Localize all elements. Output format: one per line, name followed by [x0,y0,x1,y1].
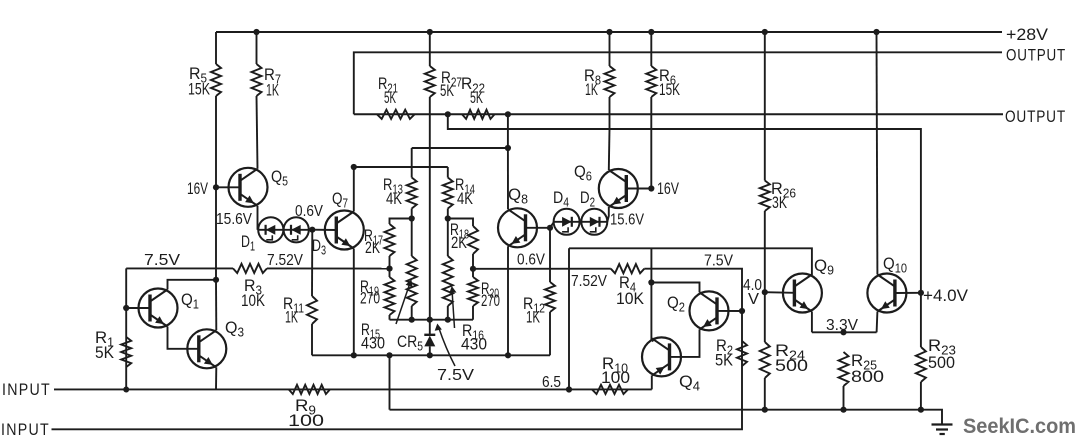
label R14 [455,175,475,208]
wire Q1 emitter to Q3 base [168,327,199,349]
svg-text:+4.0V: +4.0V [923,287,968,305]
svg-text:800: 800 [851,367,884,386]
svg-text:1K: 1K [526,308,540,327]
node 6.5 [566,386,572,392]
wire Q7 base [312,229,336,231]
wire row R13-top to R22-right column [412,114,511,151]
node Q1 base [123,305,129,311]
node Q8 base / D4 [547,225,553,231]
label R13 [383,175,403,208]
wire R26 to Q9 base [764,211,766,292]
svg-text:+28V: +28V [1006,26,1048,44]
resistor R11 [307,296,317,324]
label 15.6V right [610,212,645,229]
wire Q1 base [126,307,150,309]
wire R19 top [389,269,391,277]
label Q3 [225,318,244,340]
wire Q2 emitter to Q4 base [671,329,700,357]
transistor Q2 [690,291,729,330]
arrow to R16 [449,286,456,328]
label R10 [601,354,630,387]
svg-text:2K: 2K [365,238,380,257]
wire Q5 base from 16V node [216,186,240,188]
label INPUT upper [2,381,51,399]
wire R23 top [920,293,922,347]
wire Q4 collector column [651,248,653,341]
wire R16 top [447,219,449,257]
label 4.0 V [743,277,762,308]
wire R24 bottom [764,378,766,410]
wire R8 mid [609,97,611,129]
wire R13 bottom [411,209,413,219]
wire INPUT row [54,388,652,390]
label R8 [584,66,601,99]
wire R15 top [411,219,413,257]
node R1 top is Q1 base column [123,387,129,393]
svg-text:10K: 10K [616,289,645,308]
svg-text:1K: 1K [585,80,598,99]
wire 0.6V row [473,268,611,270]
wire R13 column top [411,148,413,178]
resistor R1 [121,337,131,367]
wire row to R14 top [351,164,448,170]
label R22 [461,74,485,107]
label 7.5V top-left [144,252,181,269]
wire 7.5V row [126,267,233,269]
wire Q2 collector jog [651,283,699,293]
wire R6 to 16V node [650,97,652,189]
node Q9 base [762,289,768,295]
wire R13bottom to R17 top [390,219,412,225]
diode D1 [258,217,283,242]
resistor R21 [377,110,415,119]
svg-text:100: 100 [601,368,630,387]
resistor R26 [760,181,770,212]
label 7.5V bottom [437,367,475,384]
label 15.6V left [216,211,253,228]
wire Q10 base [895,292,921,294]
diode D2 [581,209,607,235]
label D2 [580,188,595,210]
svg-text:16V: 16V [657,179,679,198]
wire R12 bottom [549,312,551,355]
wire R25 bottom [843,386,845,410]
wire row B [312,354,550,356]
arrow to R15 [396,280,413,325]
transistor Q3 [187,329,226,368]
resistor R4 [611,264,645,273]
wire R11 top [311,230,313,296]
label OUTPUT lower [1005,108,1066,126]
label R11 [283,294,304,327]
svg-text:500: 500 [775,356,808,375]
wire 3.3V row [812,331,877,333]
node 7.52V [386,266,392,272]
wire Q3 emitter [215,367,217,389]
transistor Q1 [139,289,178,328]
wire R4 to 7.5V corner [644,269,742,366]
label Q9 [814,256,834,278]
label +4.0V [923,287,968,305]
wire R15 bottom [411,306,413,320]
resistor R2 [737,341,747,366]
wire Q6 collector column [608,129,611,170]
label R26 [771,179,796,212]
wire Q4 emitter down [651,375,653,389]
resistor R25 [839,352,849,386]
svg-text:7.5V: 7.5V [704,253,734,270]
wire Q7 collector column [353,167,355,212]
wire bottom rail [390,410,943,424]
transistor Q8 [498,208,537,247]
wire Q8base to D4 [550,222,554,228]
svg-text:5K: 5K [470,88,483,107]
wire R19col down to bottom rail [389,355,391,409]
svg-text:7.52V: 7.52V [267,252,304,269]
wire Q10 emitter [876,312,879,333]
label R24 [775,341,808,375]
watermark SeekIC.com [963,415,1076,438]
node Q2 base [739,308,745,314]
label CR5 [397,332,423,354]
resistor R10 [592,385,628,394]
resistor R13 [407,178,417,209]
wire R20 bottom to row T [472,306,474,320]
node 16V right [648,185,654,191]
wire R3 to R17 junction [267,267,390,269]
node 16V [213,184,219,190]
wire R26 top [764,32,766,181]
label D3 [312,236,326,258]
transistor Q4 [642,337,681,376]
wire line A [569,248,812,275]
wire R20 top [472,269,474,277]
label 0.6V right [517,252,546,269]
wire 6.5 column [568,248,570,389]
svg-text:270: 270 [360,289,380,308]
label R23 [928,336,956,372]
svg-text:0.6V: 0.6V [517,252,546,269]
svg-text:3K: 3K [772,193,787,212]
resistor R12 [545,282,555,312]
svg-text:V: V [748,291,760,308]
label INPUT lower [1,421,50,439]
label 16V [187,179,208,198]
wire R5 column top [215,32,217,64]
resistor R23 [916,347,926,382]
label R7 [264,65,281,100]
wire OUTPUT rail upper [354,52,1002,114]
resistor R27 [425,66,435,97]
wire Q6 base [626,188,651,190]
node R13 bottom [409,215,415,221]
resistor R7 [252,64,262,96]
resistor R6 [646,66,656,97]
transistor Q6 [599,169,638,208]
wire Q1 base column [125,268,127,389]
diode D4 [554,209,580,235]
wire Q7 emitter column [353,249,355,356]
svg-text:INPUT: INPUT [2,381,51,399]
node Q1/Q3 collector tie [213,277,219,283]
label R15 [361,320,385,353]
svg-text:5K: 5K [440,81,454,100]
wire line B to Q10 base column [448,114,921,292]
label D1 [241,232,255,254]
label R18 [450,220,469,252]
svg-text:15K: 15K [188,80,210,99]
label R25 [851,351,884,386]
svg-text:270: 270 [481,291,500,310]
label R16 [461,321,487,354]
wire 16V node down through 7.5V row [215,187,217,279]
svg-text:7.5V: 7.5V [144,252,181,269]
resistor R19 [385,277,395,315]
wire Q3 collector [215,280,217,331]
wire Q9 base [765,291,795,294]
svg-text:5K: 5K [95,343,115,362]
label R4 [616,273,645,308]
svg-text:15.6V: 15.6V [216,211,253,228]
resistor R24 [760,342,770,378]
wire Q8 base [526,227,551,229]
label D4 [553,188,569,210]
wire D3 to Q7 base node [309,229,313,231]
label Q2 [667,293,685,315]
label R3 [241,276,266,310]
label Q5 [271,167,288,189]
resistor R22 [462,110,495,119]
wire R14bottom to R18 top [448,219,473,227]
label +28V [1006,26,1048,44]
zener CR5 [424,320,435,356]
wire Q9 emitter [811,312,813,333]
wire Q2 base [717,310,742,312]
label 7.52V left [267,252,304,269]
wire R12 top [549,228,551,282]
wire R5 to 16V node [215,96,217,187]
label Q6 [574,162,592,184]
label R1 [95,328,115,362]
wire Q8 collector column [507,148,509,209]
node Q2 collector tie [648,279,654,285]
svg-text:SeekIC.com: SeekIC.com [963,415,1076,438]
resistor R16 [443,256,453,306]
node R25 top [840,329,846,335]
wire R16 bottom [447,306,449,320]
wire R7 top [256,32,258,64]
svg-text:100: 100 [288,411,324,430]
wire R24 top [764,292,766,342]
label Q4 [679,372,700,394]
label R9 [288,396,324,430]
label OUTPUT upper [1006,47,1066,65]
arrow 7.5V to CR5 [435,324,455,367]
resistor R9 [289,385,330,394]
node bottom rail junctions [762,407,924,413]
svg-text:430: 430 [361,334,385,353]
label Q1 [181,290,199,312]
wire R27 column [429,32,431,66]
label R17 [364,226,383,257]
resistor R15 [407,256,417,306]
svg-text:10K: 10K [241,291,266,310]
label Q10 [883,254,907,276]
label 7.5V right [704,253,734,270]
wire Q5 emitter down [257,206,259,230]
svg-text:7.52V: 7.52V [571,273,608,290]
label R20 [481,279,500,310]
wire Q10 collector column [876,32,879,275]
wire Q1 collector jog [168,280,216,290]
svg-text:OUTPUT: OUTPUT [1005,108,1066,126]
node row B junctions [351,352,511,358]
label Q7 [332,189,348,211]
resistor R5 [211,64,221,96]
svg-text:5K: 5K [715,351,734,370]
svg-text:1K: 1K [285,308,298,327]
transistor Q9 [783,274,822,313]
transistor Q10 [867,274,906,313]
svg-text:7.5V: 7.5V [437,367,475,384]
node row T junctions [409,317,451,323]
resistor R3 [233,264,267,273]
label 0.6V left [295,203,324,220]
svg-text:15K: 15K [659,80,680,99]
wire R14 column top [447,167,449,178]
svg-text:4K: 4K [386,189,403,208]
resistor R8 [605,66,615,97]
wire R18 to 0.6V node [472,254,474,269]
wire R8 top [609,32,611,66]
node D3/Q7 base/R11 [309,227,315,233]
svg-text:15.6V: 15.6V [610,212,645,229]
node +28V rail junctions [253,29,879,35]
label R12 [523,294,545,327]
node R14 bottom [445,215,451,221]
label 3.3V [826,317,859,334]
label Q8 [508,185,528,207]
ground [932,425,953,435]
wire D2 to Q6 emitter [607,207,609,222]
svg-text:5K: 5K [384,88,396,107]
label R6 [659,66,680,99]
label 16V right [657,179,679,198]
transistor Q5 [229,168,268,207]
wire Q8 emitter column [507,246,509,355]
wire R27 column long [429,97,431,320]
wire R19 bottom to row T [389,315,391,320]
svg-text:500: 500 [928,353,955,372]
label 7.52V right [571,273,608,290]
wire R6 top [650,32,652,66]
resistor R14 [443,178,453,209]
node R18 bottom [470,266,476,272]
wire R17 to 7.52V node [389,256,391,269]
svg-text:1K: 1K [266,81,279,100]
node R22 junctions [445,111,511,117]
diode D3 [284,217,309,242]
svg-text:0.6V: 0.6V [295,203,324,220]
label R19 [360,277,380,308]
label 6.5 [542,374,561,391]
resistor R18 [468,226,478,254]
wire INPUT lower line [52,366,743,429]
svg-text:OUTPUT: OUTPUT [1006,47,1066,65]
svg-text:16V: 16V [187,179,208,198]
label R21 [378,74,398,107]
wire R11 bottom to row B [311,324,313,355]
wire R14 bottom [447,209,449,219]
label R5 [188,64,210,99]
wire OUTPUT rail lower (R21/R22 row) [354,113,1003,115]
label R2 [715,336,734,370]
transistor Q7 [325,211,364,250]
node Q10 base +4.0V [918,290,924,296]
wire R7 to Q5 collector [257,96,258,169]
wire R23 bottom [920,382,922,410]
resistor R17 [385,224,395,256]
wire row T [390,319,474,321]
label R27 [440,68,462,100]
svg-text:INPUT: INPUT [1,421,50,439]
resistor R20 [468,277,478,306]
svg-text:2K: 2K [451,233,468,252]
wire +28V rail [216,31,1002,33]
svg-text:4K: 4K [457,189,474,208]
svg-text:6.5: 6.5 [542,374,561,391]
svg-text:430: 430 [461,335,487,354]
